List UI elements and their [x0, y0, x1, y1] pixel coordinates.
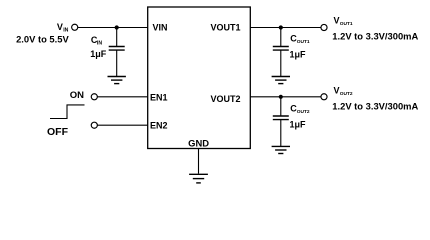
svg-text:VOUT1: VOUT1	[210, 23, 240, 33]
svg-text:OUT1: OUT1	[340, 21, 353, 27]
svg-text:OUT2: OUT2	[297, 109, 310, 115]
svg-text:VOUT2: VOUT2	[210, 94, 240, 104]
svg-text:OUT2: OUT2	[340, 91, 353, 97]
svg-text:V: V	[334, 86, 340, 96]
svg-text:EN1: EN1	[150, 93, 168, 103]
svg-text:2.0V to 5.5V: 2.0V to 5.5V	[16, 33, 69, 44]
svg-text:1μF: 1μF	[290, 50, 307, 60]
svg-text:IN: IN	[97, 41, 102, 47]
svg-text:1.2V to 3.3V/300mA: 1.2V to 3.3V/300mA	[332, 100, 418, 111]
svg-text:ON: ON	[70, 90, 84, 101]
svg-text:OFF: OFF	[47, 126, 69, 138]
svg-text:1.2V to 3.3V/300mA: 1.2V to 3.3V/300mA	[332, 30, 418, 41]
svg-text:EN2: EN2	[150, 120, 168, 130]
svg-text:1μF: 1μF	[290, 120, 307, 130]
svg-text:GND: GND	[188, 137, 209, 148]
svg-text:V: V	[57, 22, 63, 32]
svg-text:VIN: VIN	[153, 23, 168, 33]
svg-text:V: V	[334, 16, 340, 26]
svg-text:OUT1: OUT1	[297, 39, 310, 45]
svg-text:1μF: 1μF	[90, 49, 107, 59]
